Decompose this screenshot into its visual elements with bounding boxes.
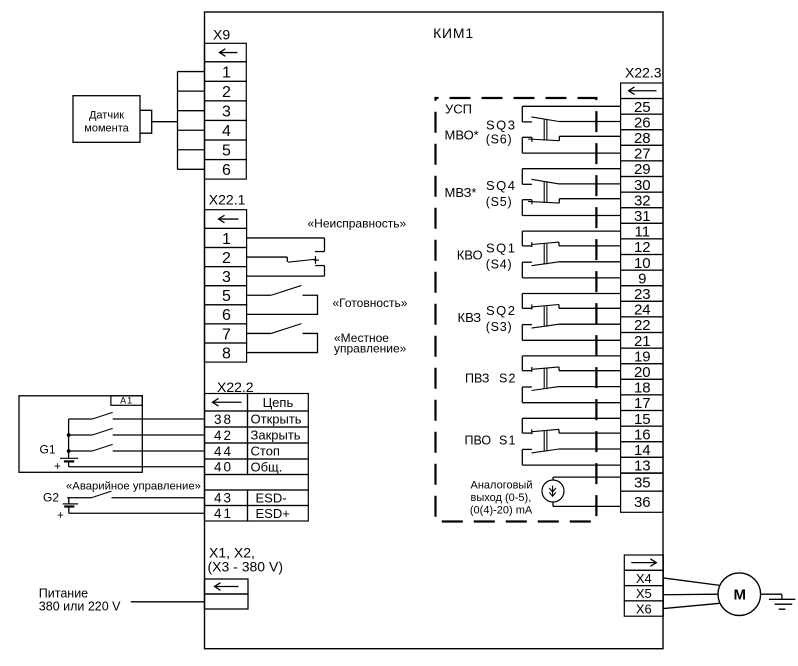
- svg-text:X22.3: X22.3: [625, 65, 662, 81]
- svg-text:15: 15: [634, 411, 651, 428]
- svg-text:41: 41: [214, 506, 233, 521]
- svg-text:ПВО: ПВО: [465, 434, 492, 448]
- svg-text:выход (0-5),: выход (0-5),: [471, 492, 532, 504]
- svg-text:6: 6: [222, 162, 231, 179]
- svg-text:«Аварийное управление»: «Аварийное управление»: [66, 481, 201, 493]
- svg-text:SQ4: SQ4: [486, 178, 517, 193]
- svg-text:2: 2: [222, 250, 231, 267]
- svg-text:X6: X6: [636, 601, 652, 616]
- svg-text:S1: S1: [499, 434, 517, 448]
- svg-text:SQ2: SQ2: [486, 303, 517, 318]
- svg-text:14: 14: [634, 442, 651, 459]
- svg-text:16: 16: [634, 426, 651, 443]
- svg-text:Стоп: Стоп: [251, 444, 280, 459]
- svg-text:5: 5: [222, 288, 231, 305]
- svg-text:ESD+: ESD+: [256, 506, 290, 521]
- svg-text:А1: А1: [120, 396, 133, 406]
- svg-text:29: 29: [634, 161, 651, 178]
- svg-text:Аналоговый: Аналоговый: [471, 480, 533, 492]
- svg-text:7: 7: [222, 326, 231, 343]
- svg-text:40: 40: [214, 460, 233, 475]
- svg-text:SQ1: SQ1: [486, 241, 517, 256]
- svg-text:момента: момента: [84, 123, 129, 135]
- svg-text:МВЗ*: МВЗ*: [445, 185, 477, 200]
- svg-text:31: 31: [634, 208, 651, 225]
- svg-text:26: 26: [634, 114, 651, 131]
- svg-text:38: 38: [214, 412, 233, 427]
- svg-text:2: 2: [222, 84, 231, 101]
- svg-text:X4: X4: [636, 571, 652, 586]
- svg-text:30: 30: [634, 177, 651, 194]
- svg-text:43: 43: [214, 491, 233, 506]
- svg-text:X22.1: X22.1: [209, 192, 246, 208]
- svg-text:КВО: КВО: [457, 248, 483, 263]
- svg-text:380 или 220 V: 380 или 220 V: [39, 600, 121, 614]
- svg-text:ESD-: ESD-: [256, 490, 287, 505]
- svg-text:6: 6: [222, 307, 231, 324]
- svg-text:21: 21: [634, 333, 651, 350]
- svg-text:КИМ1: КИМ1: [433, 25, 474, 41]
- svg-text:управление»: управление»: [334, 341, 407, 355]
- svg-text:SQ3: SQ3: [486, 118, 517, 133]
- svg-text:13: 13: [634, 458, 651, 475]
- svg-text:S2: S2: [499, 371, 517, 385]
- svg-text:ПВЗ: ПВЗ: [465, 371, 489, 385]
- svg-text:(S6): (S6): [486, 133, 513, 147]
- svg-text:8: 8: [222, 345, 231, 362]
- svg-text:(X3 - 380 V): (X3 - 380 V): [208, 559, 283, 575]
- svg-text:1: 1: [222, 64, 231, 81]
- svg-text:10: 10: [634, 255, 651, 272]
- svg-text:(S4): (S4): [486, 258, 513, 272]
- svg-text:9: 9: [638, 270, 646, 287]
- svg-text:X22.2: X22.2: [217, 379, 254, 395]
- svg-text:11: 11: [635, 224, 651, 241]
- svg-text:Открыть: Открыть: [251, 412, 302, 427]
- svg-text:42: 42: [214, 428, 233, 443]
- svg-text:18: 18: [634, 380, 651, 397]
- svg-text:«Неисправность»: «Неисправность»: [308, 217, 407, 231]
- svg-text:G1: G1: [40, 443, 56, 457]
- svg-text:20: 20: [634, 364, 651, 381]
- svg-text:«Готовность»: «Готовность»: [333, 296, 408, 310]
- svg-text:17: 17: [634, 395, 651, 412]
- svg-text:1: 1: [222, 231, 231, 248]
- svg-text:36: 36: [634, 494, 651, 511]
- svg-text:КВЗ: КВЗ: [458, 310, 482, 325]
- svg-text:3: 3: [222, 103, 231, 120]
- svg-text:5: 5: [222, 143, 231, 160]
- svg-text:Датчик: Датчик: [89, 110, 124, 122]
- svg-text:Закрыть: Закрыть: [251, 428, 301, 443]
- svg-text:19: 19: [634, 348, 651, 365]
- svg-text:12: 12: [634, 239, 651, 256]
- svg-text:27: 27: [634, 146, 651, 163]
- svg-text:М: М: [734, 587, 747, 604]
- svg-text:(S5): (S5): [486, 195, 513, 209]
- svg-text:(S3): (S3): [486, 320, 513, 334]
- svg-text:Общ.: Общ.: [251, 459, 283, 474]
- svg-text:23: 23: [634, 286, 651, 303]
- svg-text:Цепь: Цепь: [263, 395, 294, 410]
- svg-text:+: +: [54, 461, 61, 473]
- svg-text:+: +: [57, 510, 64, 522]
- svg-text:УСП: УСП: [445, 102, 472, 117]
- svg-text:4: 4: [222, 123, 231, 140]
- svg-text:X9: X9: [213, 27, 230, 43]
- svg-text:44: 44: [214, 444, 233, 459]
- svg-text:(0(4)-20) mA: (0(4)-20) mA: [470, 505, 533, 517]
- svg-text:Питание: Питание: [39, 587, 88, 601]
- svg-text:МВО*: МВО*: [445, 128, 479, 143]
- svg-text:24: 24: [634, 302, 651, 319]
- svg-text:25: 25: [634, 99, 651, 116]
- svg-text:G2: G2: [43, 491, 59, 505]
- svg-text:3: 3: [222, 269, 231, 286]
- svg-text:22: 22: [634, 317, 651, 334]
- svg-text:35: 35: [634, 475, 651, 492]
- svg-text:28: 28: [634, 130, 651, 147]
- svg-text:X5: X5: [636, 586, 652, 601]
- svg-text:32: 32: [634, 192, 651, 209]
